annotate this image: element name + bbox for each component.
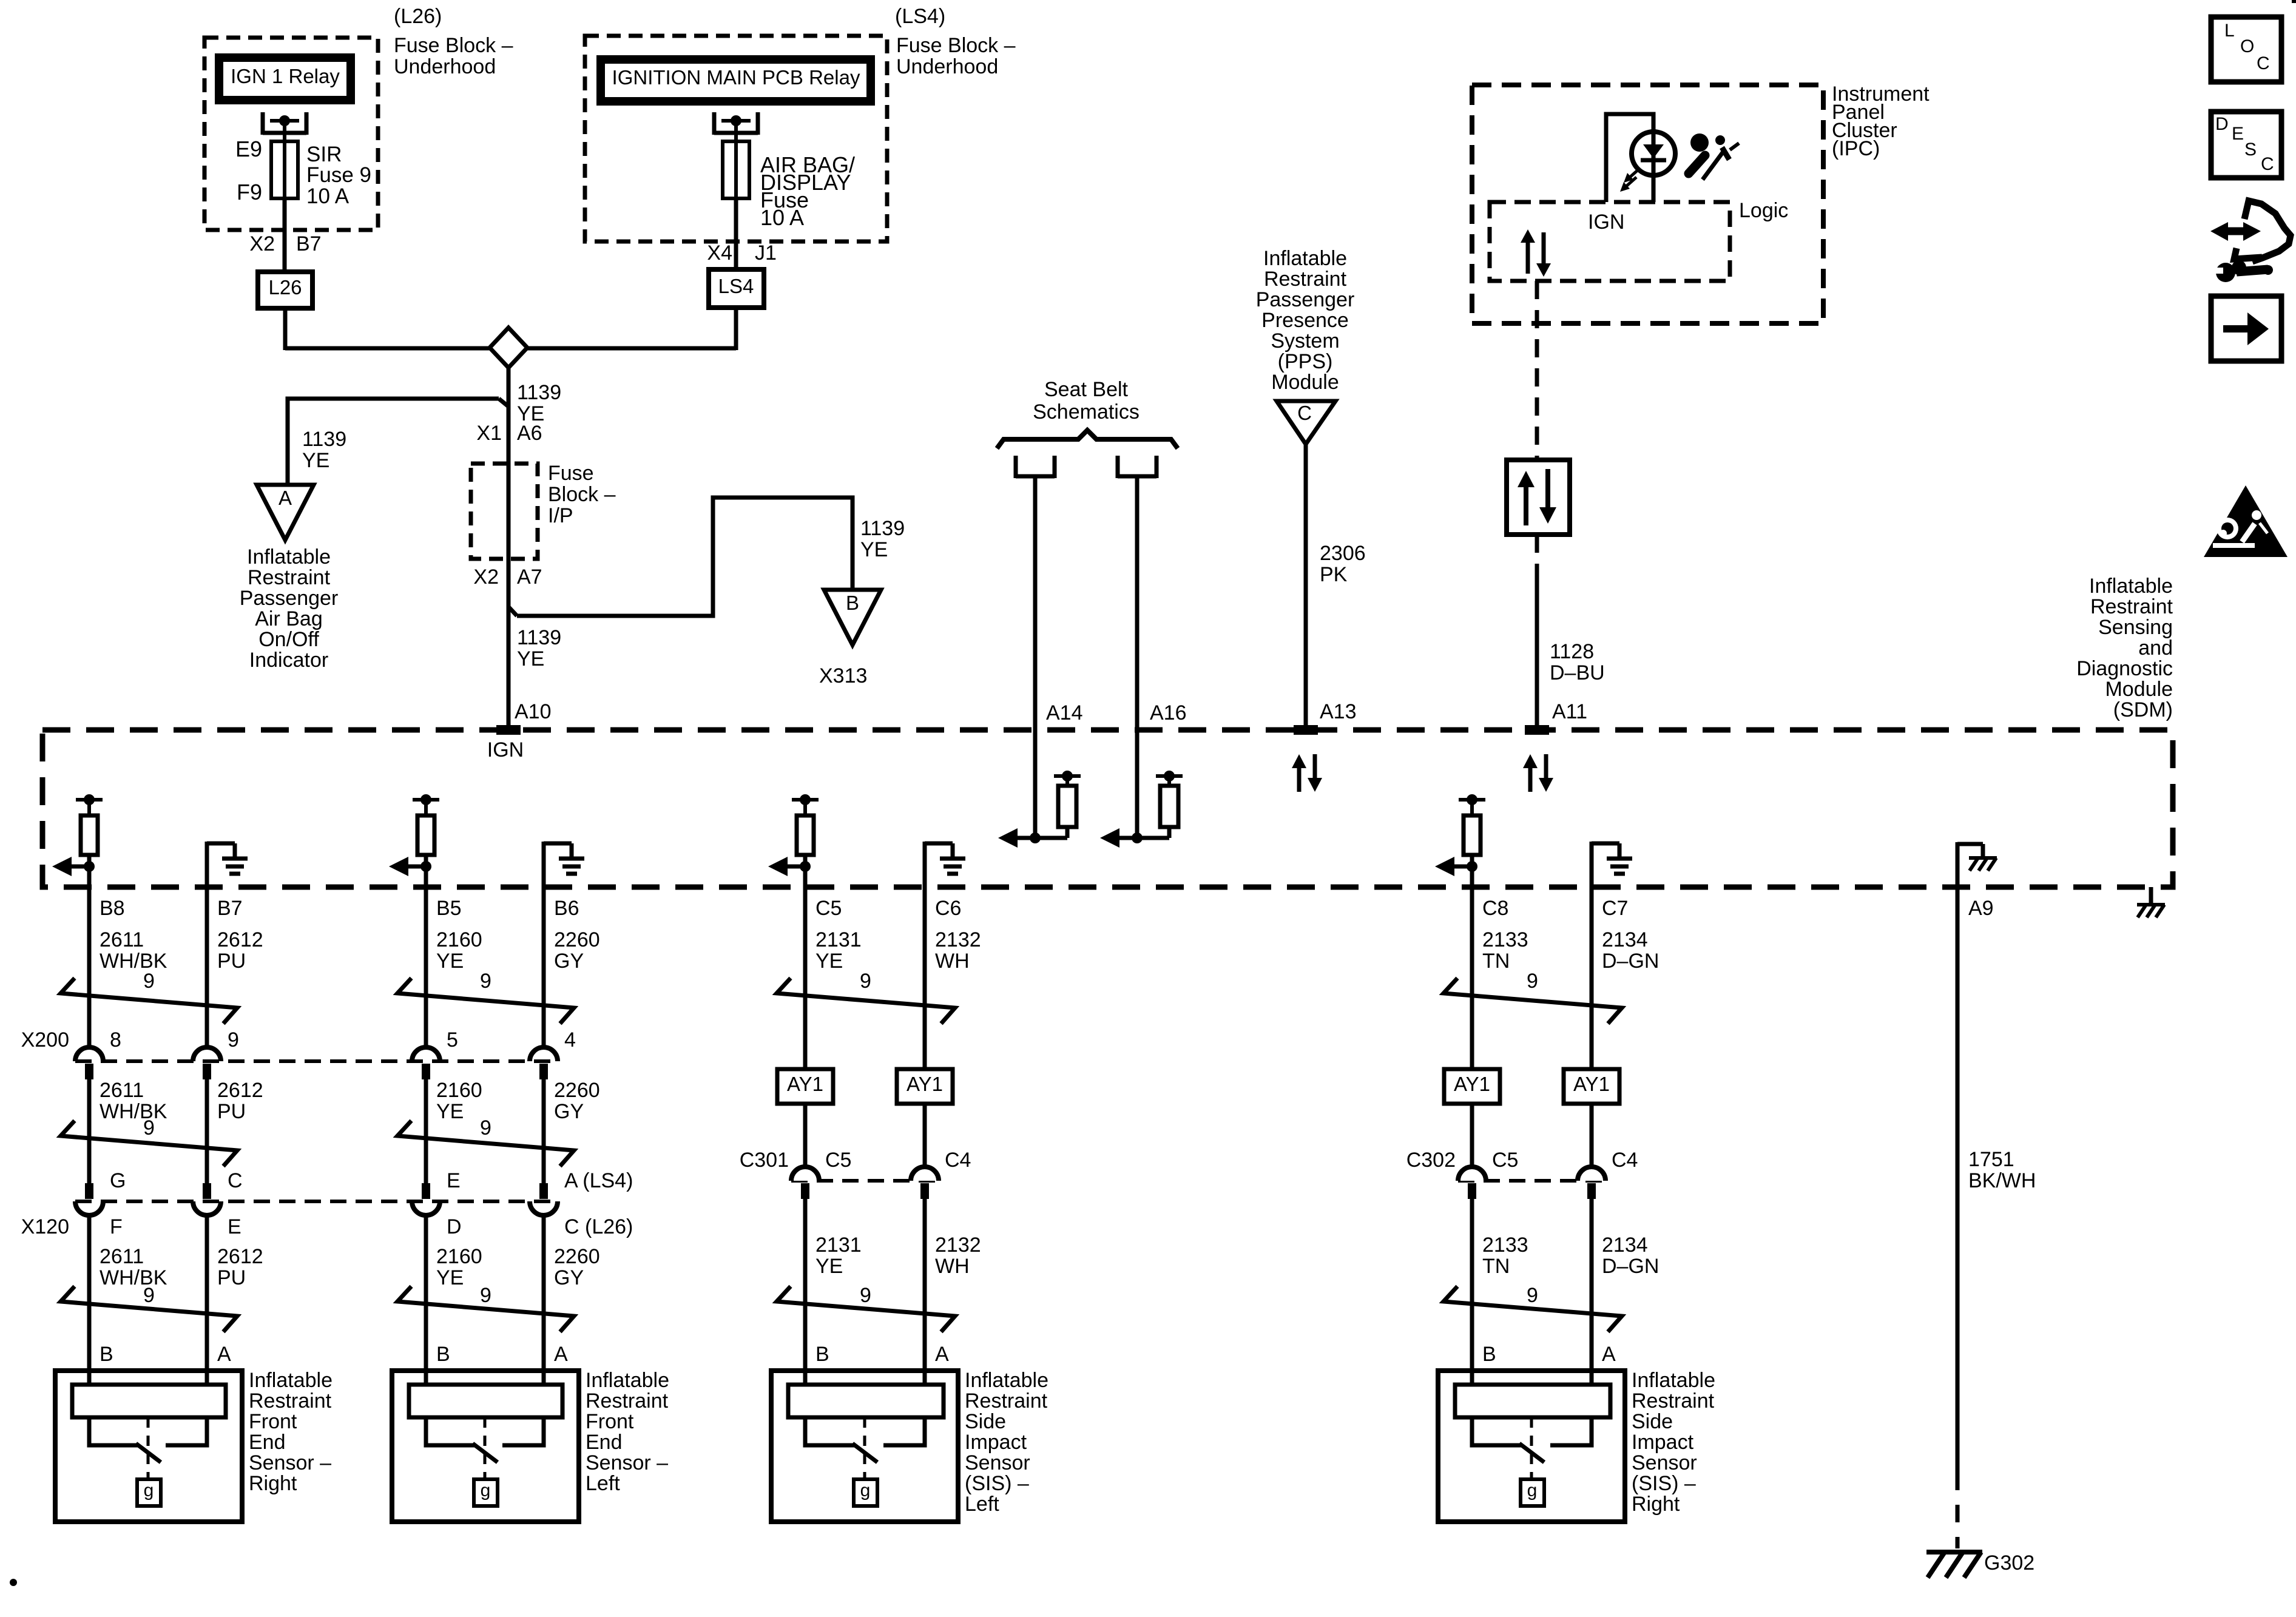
svg-text:A: A	[1602, 1343, 1616, 1366]
svg-text:IGN 1 Relay: IGN 1 Relay	[231, 65, 340, 87]
svg-text:AY1: AY1	[1454, 1073, 1490, 1095]
svg-text:2260: 2260	[554, 1079, 600, 1102]
svg-text:2131: 2131	[815, 928, 862, 951]
svg-text:g: g	[1527, 1480, 1538, 1501]
svg-text:C5: C5	[825, 1149, 851, 1172]
wire 2132 to AY1	[923, 887, 927, 1069]
twisted pair symbol	[397, 1121, 574, 1166]
wire 2160 X200 to X120	[424, 1079, 428, 1183]
fuse block underhood (L26) dashed box	[204, 38, 378, 230]
svg-text:L: L	[2224, 21, 2235, 41]
bidirectional arrows below A11	[1528, 766, 1533, 792]
in-line harness connector AY1	[1564, 1069, 1619, 1104]
svg-text:TN: TN	[1482, 950, 1510, 973]
sensor: Inflatable Restraint Side Impact Sensor (SIS) – Left	[771, 1371, 958, 1522]
svg-text:YE: YE	[815, 950, 843, 973]
in-line harness connector AY1	[777, 1069, 833, 1104]
svg-text:9: 9	[143, 970, 155, 993]
svg-text:Front: Front	[249, 1410, 297, 1433]
svg-text:9: 9	[480, 1284, 491, 1307]
svg-text:E: E	[228, 1215, 241, 1238]
svg-text:Restraint: Restraint	[586, 1389, 669, 1413]
wire 2134 C302 to sensor	[1590, 1199, 1594, 1385]
svg-text:X4: X4	[707, 241, 732, 265]
svg-text:C (L26): C (L26)	[564, 1215, 633, 1238]
svg-text:Schematics: Schematics	[1033, 400, 1140, 424]
svg-text:10 A: 10 A	[760, 205, 804, 230]
svg-text:GY: GY	[554, 1266, 584, 1289]
in-line harness connector AY1	[1444, 1069, 1500, 1104]
in-line connector L26	[258, 272, 312, 308]
svg-text:B6: B6	[554, 897, 579, 920]
sensor: Inflatable Restraint Front End Sensor – Left	[392, 1371, 579, 1522]
connector C301 dashed line	[791, 1179, 939, 1183]
svg-text:D–BU: D–BU	[1550, 661, 1605, 684]
wire dashed below serial data box	[1535, 535, 1539, 581]
svg-text:Inflatable: Inflatable	[965, 1369, 1048, 1392]
svg-text:B7: B7	[296, 232, 322, 255]
SDM case chassis ground (right corner)	[2149, 887, 2153, 905]
SDM internal ground at C6	[923, 842, 927, 887]
wire 2132 C301 to sensor	[923, 1199, 927, 1385]
svg-text:YE: YE	[302, 449, 329, 472]
svg-text:D–GN: D–GN	[1602, 950, 1659, 973]
wire 2131 C301 to sensor	[803, 1199, 808, 1385]
svg-text:C6: C6	[935, 897, 961, 920]
wire 2131 to AY1	[803, 887, 808, 1069]
svg-text:B: B	[846, 592, 859, 614]
svg-text:2133: 2133	[1482, 928, 1528, 951]
svg-text:Sensor: Sensor	[965, 1451, 1030, 1474]
svg-text:2611: 2611	[100, 1079, 144, 1102]
svg-text:Sensor: Sensor	[1632, 1451, 1697, 1474]
svg-text:Indicator: Indicator	[249, 649, 328, 672]
stray mark (top right corner)	[2292, 0, 2296, 3]
svg-text:C: C	[2261, 154, 2274, 174]
wire 1751 dashed tail	[1956, 1473, 1960, 1548]
svg-text:Side: Side	[1632, 1410, 1673, 1433]
svg-text:g: g	[860, 1480, 871, 1501]
wire 1751 BK/WH	[1956, 887, 1960, 1473]
wire 2160 X120 to sensor	[424, 1215, 428, 1385]
svg-text:D: D	[2215, 114, 2229, 134]
svg-text:2132: 2132	[935, 928, 981, 951]
svg-text:Fuse 9: Fuse 9	[306, 163, 371, 187]
svg-text:1128: 1128	[1550, 640, 1594, 663]
twisted pair symbol	[1443, 978, 1622, 1024]
svg-text:(IPC): (IPC)	[1832, 137, 1880, 160]
twisted pair symbol	[61, 1121, 237, 1166]
wire 2133 to AY1	[1470, 887, 1474, 1069]
svg-text:D–GN: D–GN	[1602, 1255, 1659, 1278]
svg-text:2611: 2611	[100, 928, 144, 951]
SDM squib driver (resistor + arrow) at B8	[84, 794, 95, 805]
svg-text:WH: WH	[935, 1255, 970, 1278]
svg-text:X2: X2	[249, 232, 275, 255]
svg-text:X2: X2	[473, 565, 499, 589]
svg-text:2131: 2131	[815, 1234, 862, 1257]
bidirectional arrows below A13	[1297, 766, 1302, 792]
svg-text:Restraint: Restraint	[249, 1389, 332, 1413]
svg-text:B5: B5	[436, 897, 462, 920]
wire 2134 AY1 to C302	[1590, 1104, 1594, 1167]
svg-text:Restraint: Restraint	[2090, 595, 2173, 618]
svg-text:4: 4	[564, 1028, 576, 1052]
svg-text:g: g	[144, 1480, 154, 1501]
wire 2132 AY1 to C301	[923, 1104, 927, 1167]
svg-text:YE: YE	[860, 538, 888, 561]
svg-text:9: 9	[1527, 970, 1538, 993]
svg-text:Inflatable: Inflatable	[247, 545, 331, 569]
twisted pair symbol	[61, 1286, 237, 1332]
wire 2611 X200 to X120	[87, 1079, 92, 1183]
terminal tick A10	[496, 725, 521, 735]
svg-text:BK/WH: BK/WH	[1968, 1169, 2036, 1192]
SDM squib driver (resistor + arrow) at B5	[420, 794, 431, 805]
icon hand with double arrow and wrench	[2226, 228, 2245, 235]
svg-text:A: A	[935, 1343, 949, 1366]
terminal tick A13	[1294, 725, 1318, 735]
connector X120 terminals F/E	[85, 1183, 93, 1199]
wire 2260 to X200	[542, 887, 546, 1047]
svg-text:AY1: AY1	[1573, 1073, 1610, 1095]
svg-text:9: 9	[1527, 1284, 1538, 1307]
svg-text:X1: X1	[476, 422, 502, 445]
svg-text:1139: 1139	[517, 626, 561, 649]
svg-text:Inflatable: Inflatable	[586, 1369, 669, 1392]
svg-text:2612: 2612	[217, 928, 263, 951]
terminal tick A11	[1525, 725, 1549, 735]
svg-text:2612: 2612	[217, 1245, 263, 1268]
svg-text:A (LS4): A (LS4)	[564, 1169, 633, 1192]
svg-text:(SIS) –: (SIS) –	[1632, 1472, 1696, 1495]
wire 1128 D-BU	[1535, 581, 1539, 730]
SDM squib driver (resistor + arrow) at A14	[1016, 836, 1067, 840]
svg-text:WH: WH	[935, 950, 970, 973]
wire 2134 to AY1	[1590, 887, 1594, 1069]
svg-text:2134: 2134	[1602, 1234, 1648, 1257]
svg-text:A: A	[554, 1343, 568, 1366]
svg-text:Right: Right	[1632, 1493, 1680, 1516]
wire 1139 YE main vertical to SDM A10	[507, 368, 511, 730]
wire 2133 AY1 to C302	[1470, 1104, 1474, 1167]
svg-text:Impact: Impact	[965, 1431, 1027, 1454]
wire serial data IPC to SDM (dashed)	[1535, 281, 1539, 460]
stray period mark (bottom left)	[10, 1579, 17, 1586]
svg-text:8: 8	[110, 1028, 121, 1052]
svg-text:G: G	[110, 1169, 126, 1192]
svg-text:WH/BK: WH/BK	[100, 1100, 167, 1123]
svg-text:YE: YE	[517, 647, 544, 670]
twisted pair symbol	[397, 978, 574, 1024]
svg-text:C: C	[2257, 53, 2270, 73]
LED light arrows	[1629, 168, 1640, 178]
svg-text:WH/BK: WH/BK	[100, 1266, 167, 1289]
off-page triangle C (PPS)	[1277, 401, 1335, 444]
svg-text:Impact: Impact	[1632, 1431, 1694, 1454]
inflatable restraint sensing and diagnostic module (SDM) dashed box	[42, 730, 2173, 887]
svg-text:A6: A6	[517, 422, 542, 445]
svg-text:Passenger: Passenger	[1256, 288, 1355, 311]
air bag indicator LED loop wire	[1606, 114, 1653, 202]
svg-text:A10: A10	[515, 700, 552, 723]
svg-text:Restraint: Restraint	[965, 1389, 1048, 1413]
svg-text:IGNITION MAIN PCB Relay: IGNITION MAIN PCB Relay	[612, 66, 860, 89]
svg-text:2306: 2306	[1320, 542, 1366, 565]
seat belt terminal symbol A14	[1014, 456, 1018, 478]
svg-text:Left: Left	[586, 1472, 620, 1495]
svg-text:IGN: IGN	[1588, 211, 1624, 234]
svg-text:IGN: IGN	[487, 738, 524, 761]
svg-text:B: B	[436, 1343, 450, 1366]
svg-text:2612: 2612	[217, 1079, 263, 1102]
svg-text:Sensing: Sensing	[2098, 616, 2173, 639]
SDM chassis ground pigtail A9	[1956, 842, 1960, 887]
svg-text:A: A	[217, 1343, 231, 1366]
svg-text:AY1: AY1	[907, 1073, 943, 1095]
svg-text:B8: B8	[100, 897, 125, 920]
svg-text:Sensor –: Sensor –	[249, 1451, 331, 1474]
wire LS4 down	[734, 308, 738, 350]
svg-text:A14: A14	[1046, 701, 1083, 724]
instrument panel cluster (IPC) dashed box	[1472, 85, 1823, 323]
svg-text:Block –: Block –	[548, 483, 616, 506]
wire fuse F9 to connector L26	[283, 198, 287, 272]
connector X200 terminals 5/4	[412, 1047, 440, 1061]
svg-text:B: B	[815, 1343, 829, 1366]
seat belt terminal symbol A16	[1116, 456, 1120, 478]
SDM internal ground at C7	[1590, 842, 1594, 887]
svg-text:Restraint: Restraint	[248, 566, 331, 589]
svg-text:(L26): (L26)	[394, 5, 442, 28]
svg-text:Module: Module	[2105, 678, 2173, 701]
svg-text:GY: GY	[554, 1100, 584, 1123]
relay pin terminal (IGN 1 Relay)	[261, 112, 265, 135]
svg-text:A: A	[279, 487, 292, 509]
svg-text:10 A: 10 A	[306, 184, 349, 208]
svg-text:F: F	[110, 1215, 123, 1238]
svg-text:E9: E9	[235, 137, 262, 161]
svg-text:5: 5	[447, 1028, 458, 1052]
wire 2133 C302 to sensor	[1470, 1199, 1474, 1385]
svg-text:A16: A16	[1150, 701, 1187, 724]
svg-text:Presence: Presence	[1261, 309, 1349, 332]
connector X200 dashed line	[75, 1059, 558, 1063]
wire slant joint	[499, 399, 508, 407]
svg-text:GY: GY	[554, 950, 584, 973]
wire fuse to connector LS4	[734, 198, 738, 269]
svg-text:1139: 1139	[860, 517, 905, 540]
wire 2612 X120 to sensor	[205, 1215, 209, 1385]
wire 1139 YE to X313	[517, 498, 853, 616]
twisted pair symbol	[777, 978, 955, 1024]
svg-text:Air Bag: Air Bag	[255, 607, 323, 630]
svg-text:G302: G302	[1984, 1551, 2034, 1575]
svg-text:Inflatable: Inflatable	[1263, 247, 1347, 270]
svg-text:Passenger: Passenger	[240, 587, 339, 610]
svg-text:YE: YE	[436, 1100, 464, 1123]
svg-text:(SDM): (SDM)	[2113, 698, 2173, 721]
svg-text:Inflatable: Inflatable	[1632, 1369, 1715, 1392]
wire seat belt to SDM A16	[1135, 476, 1140, 838]
chassis ground symbol (A9)	[1969, 856, 1997, 860]
svg-text:C5: C5	[815, 897, 842, 920]
wire L26 down	[283, 308, 288, 350]
wire 2611 X120 to sensor	[87, 1215, 92, 1385]
svg-text:1751: 1751	[1968, 1148, 2014, 1171]
off-page triangle A	[257, 485, 314, 540]
connector X120 terminals D/C (L26)	[422, 1183, 430, 1199]
svg-text:C5: C5	[1492, 1149, 1518, 1172]
svg-text:C4: C4	[945, 1149, 971, 1172]
relay K: IGNITION MAIN PCB Relay	[601, 59, 871, 101]
svg-text:9: 9	[480, 970, 491, 993]
LED indicator (air bag lamp)	[1632, 132, 1675, 175]
svg-text:B: B	[1482, 1343, 1496, 1366]
svg-text:X200: X200	[21, 1028, 69, 1052]
svg-text:TN: TN	[1482, 1255, 1510, 1278]
svg-text:C4: C4	[1612, 1149, 1638, 1172]
SDM internal ground at B7	[205, 842, 209, 887]
svg-text:X120: X120	[21, 1215, 69, 1238]
svg-text:YE: YE	[436, 1266, 464, 1289]
fuse: AIR BAG/DISPLAY Fuse 10 A	[734, 121, 738, 141]
SDM internal ground at B6	[542, 842, 546, 887]
svg-text:Sensor –: Sensor –	[586, 1451, 668, 1474]
svg-text:9: 9	[480, 1116, 491, 1139]
svg-text:Fuse Block –: Fuse Block –	[394, 34, 513, 57]
svg-text:Underhood: Underhood	[896, 55, 998, 78]
svg-text:E: E	[447, 1169, 461, 1192]
svg-text:(PPS): (PPS)	[1278, 350, 1333, 373]
svg-text:PU: PU	[217, 1266, 246, 1289]
svg-text:AY1: AY1	[787, 1073, 823, 1095]
wire 2260 X120 to sensor	[542, 1215, 546, 1385]
svg-text:O: O	[2240, 36, 2254, 56]
wire 1139 YE splice to LS4 drop	[527, 346, 736, 351]
svg-text:Restraint: Restraint	[1632, 1389, 1715, 1413]
wire 2260 X200 to X120	[542, 1079, 546, 1183]
svg-text:C301: C301	[740, 1149, 789, 1172]
svg-text:2260: 2260	[554, 1245, 600, 1268]
svg-text:1139: 1139	[517, 381, 561, 404]
svg-text:Side: Side	[965, 1410, 1006, 1433]
svg-text:End: End	[586, 1431, 623, 1454]
svg-text:I/P: I/P	[548, 504, 573, 527]
svg-text:Module: Module	[1271, 371, 1339, 394]
wire 2160 to X200	[424, 887, 428, 1047]
svg-text:A11: A11	[1552, 700, 1587, 723]
svg-text:2611: 2611	[100, 1245, 144, 1268]
svg-text:9: 9	[860, 970, 871, 993]
svg-text:X313: X313	[819, 664, 867, 687]
svg-text:2133: 2133	[1482, 1234, 1528, 1257]
svg-text:Restraint: Restraint	[1264, 268, 1347, 291]
svg-text:2160: 2160	[436, 1079, 482, 1102]
svg-text:D: D	[447, 1215, 462, 1238]
wire 2131 AY1 to C301	[803, 1104, 808, 1167]
svg-text:Inflatable: Inflatable	[2089, 575, 2173, 598]
SDM squib driver (resistor + arrow) at C8	[1467, 794, 1477, 805]
svg-text:Underhood: Underhood	[394, 55, 496, 78]
svg-text:9: 9	[143, 1116, 155, 1139]
svg-text:B7: B7	[217, 897, 243, 920]
svg-text:Right: Right	[249, 1472, 297, 1495]
svg-text:Seat Belt: Seat Belt	[1044, 378, 1129, 401]
svg-text:9: 9	[860, 1284, 871, 1307]
wrench	[2216, 263, 2235, 282]
svg-text:B: B	[100, 1343, 113, 1366]
svg-text:E: E	[2232, 124, 2244, 144]
svg-text:Diagnostic: Diagnostic	[2076, 657, 2173, 680]
svg-text:PK: PK	[1320, 563, 1348, 586]
svg-text:F9: F9	[237, 180, 262, 204]
svg-text:C7: C7	[1602, 897, 1628, 920]
SDM squib driver (resistor + arrow) at A16	[1118, 836, 1169, 840]
twisted pair symbol	[1443, 1286, 1622, 1332]
svg-text:S: S	[2244, 140, 2257, 160]
svg-text:2132: 2132	[935, 1234, 981, 1257]
chassis ground symbol (SDM case)	[2137, 903, 2165, 906]
twisted pair symbol	[777, 1286, 955, 1332]
svg-text:Fuse: Fuse	[548, 462, 594, 485]
svg-text:C: C	[228, 1169, 243, 1192]
svg-text:YE: YE	[436, 950, 464, 973]
svg-text:A9: A9	[1968, 897, 1994, 920]
svg-text:C: C	[1297, 402, 1312, 424]
bidirectional arrows in logic box	[1526, 240, 1530, 274]
in-line harness connector AY1	[897, 1069, 953, 1104]
svg-text:Logic: Logic	[1739, 199, 1788, 222]
wire 2612 to X200	[205, 887, 209, 1047]
in-line connector LS4	[709, 269, 764, 308]
relay pin terminal (IGNITION MAIN PCB Relay)	[712, 112, 717, 135]
fuse block I/P dashed box	[471, 464, 538, 559]
svg-text:YE: YE	[815, 1255, 843, 1278]
wire 2612 X200 to X120	[205, 1079, 209, 1183]
svg-text:Left: Left	[965, 1493, 999, 1516]
relay K: IGN 1 Relay	[219, 58, 351, 100]
sensor: Inflatable Restraint Side Impact Sensor (SIS) – Right	[1438, 1371, 1625, 1522]
svg-text:PU: PU	[217, 950, 246, 973]
svg-text:Inflatable: Inflatable	[249, 1369, 333, 1392]
svg-text:End: End	[249, 1431, 286, 1454]
connector X120 dashed line	[75, 1200, 558, 1203]
svg-text:2260: 2260	[554, 928, 600, 951]
wire seat belt to SDM A14	[1033, 476, 1038, 838]
wire 1139 YE horizontal to splice	[285, 346, 490, 351]
svg-text:WH/BK: WH/BK	[100, 950, 167, 973]
brace (seat belt schematics)	[997, 430, 1178, 448]
ground G302 symbol	[1926, 1550, 1982, 1555]
icon LOC box	[2211, 17, 2281, 82]
icon DESC box	[2211, 112, 2281, 178]
svg-text:A7: A7	[517, 565, 542, 589]
svg-text:System: System	[1271, 329, 1339, 353]
svg-text:2134: 2134	[1602, 928, 1648, 951]
svg-text:On/Off: On/Off	[258, 628, 319, 651]
splice diamond junction	[490, 328, 527, 368]
off-page triangle B	[824, 590, 881, 645]
wire 2611 to X200	[87, 887, 92, 1047]
svg-text:g: g	[481, 1480, 491, 1501]
air bag icon (person with airbag)	[1690, 133, 1709, 152]
connector X200 terminals 8/9	[75, 1047, 103, 1061]
SDM squib driver (resistor + arrow) at C5	[800, 794, 811, 805]
wire 1139 YE to passenger air bag indicator	[288, 399, 499, 485]
svg-text:C8: C8	[1482, 897, 1508, 920]
fuse block underhood (LS4) dashed box	[585, 36, 887, 241]
